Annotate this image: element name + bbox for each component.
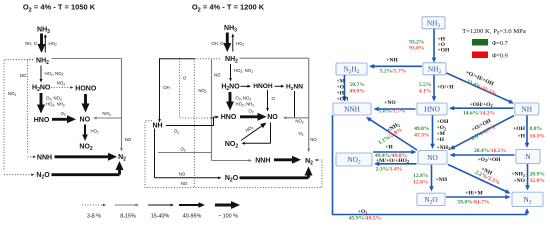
arrow H2NO->HONO dotted (left)	[51, 87, 71, 89]
species box NO (right)	[418, 151, 447, 165]
arrow NH3->NH2 thick (mid)	[226, 33, 229, 46]
svg-text:3-8 %: 3-8 %	[87, 214, 101, 220]
arrow N2O->N2 (right)	[446, 196, 507, 198]
arrow NH2->NH3 reverse thin (mid)	[232, 36, 234, 51]
wire gray NH2->N2 right (mid)	[240, 58, 309, 150]
svg-text:NO: NO	[214, 73, 221, 78]
svg-text:HNO: HNO	[424, 105, 440, 114]
svg-text:NO: NO	[427, 153, 438, 162]
svg-text:10.3%: 10.3%	[530, 134, 546, 140]
svg-text:+H: +H	[385, 145, 393, 151]
svg-text:1.8%/3.7%: 1.8%/3.7%	[379, 109, 406, 115]
wire NH down (mid)	[154, 129, 156, 178]
arrow NH2->H2NO (left)	[40, 66, 42, 80]
legend red swatch	[472, 52, 488, 59]
wire NO->NO2 (mid)	[270, 123, 272, 144]
svg-text:HNO: HNO	[34, 117, 50, 124]
arrow dotted into N2O (left)	[4, 174, 32, 176]
species box NH3 (right)	[422, 17, 445, 29]
arrow HNO->NO (right)	[432, 115, 434, 145]
arrow NO->NNH (right)	[369, 119, 417, 150]
species box NNH (right)	[333, 103, 371, 115]
arrow NH2->NH (right)	[447, 73, 511, 102]
wire H2NN down (mid)	[294, 91, 296, 117]
svg-text:28.9%: 28.9%	[530, 172, 546, 178]
arrow gray branch into NO (left)	[96, 117, 122, 119]
svg-text:45.9%/49.5%: 45.9%/49.5%	[349, 216, 382, 222]
svg-text:+OH/+O2: +OH/+O2	[469, 102, 492, 108]
legend arrow 40-95%	[179, 204, 200, 206]
svg-text:+H: +H	[517, 134, 525, 140]
svg-text:12.6%: 12.6%	[413, 180, 429, 186]
svg-text:NO: NO	[125, 137, 132, 142]
arrow dashed into N2 (mid)	[317, 159, 322, 161]
wire dotted NH2->HNO (mid)	[180, 59, 208, 118]
svg-text:+NO: +NO	[513, 178, 525, 184]
svg-text:Φ=0.7: Φ=0.7	[492, 40, 508, 47]
species box HNO (right)	[417, 103, 447, 115]
arrow NH->NO (right)	[453, 116, 514, 148]
arrow HNO->NO (mid)	[240, 115, 260, 118]
svg-text:NO: NO	[310, 137, 317, 142]
wire gray NH2 NO down (mid)	[211, 59, 213, 161]
svg-text:4.1%: 4.1%	[419, 89, 432, 95]
arrow into HNO left (mid)	[214, 116, 217, 118]
wire NH2->NH (mid)	[160, 59, 195, 121]
svg-text:2.3%/1.4%: 2.3%/1.4%	[376, 166, 403, 172]
species box N2H2 (right)	[336, 63, 367, 75]
arrow NO->NO2 (right)	[378, 163, 417, 165]
svg-text:NO: NO	[181, 181, 188, 186]
arrow HNOH->H2NN (mid)	[275, 85, 282, 87]
arrow NO2->NO diagonal (mid)	[241, 125, 264, 141]
arrow HONO->NO (left)	[84, 94, 87, 106]
svg-text:HNO: HNO	[221, 114, 237, 121]
wire N2O->N2 horizontal (left)	[52, 173, 120, 176]
arrow HNOH->NO (mid)	[267, 90, 269, 109]
svg-text:NH: NH	[522, 105, 533, 114]
wire dashed NH->N2 path (mid)	[145, 121, 322, 188]
arrow NH->N2O (mid)	[155, 177, 219, 179]
svg-text:+O/+H: +O/+H	[437, 85, 454, 91]
wire gray NH O2 row (mid)	[158, 152, 212, 154]
svg-text:~ 100 %: ~ 100 %	[218, 214, 238, 220]
wire N2O->N2 (mid)	[240, 176, 309, 179]
species box NO2 (right)	[336, 153, 372, 166]
svg-text:40-95%: 40-95%	[183, 214, 202, 220]
svg-text:+NH2: +NH2	[511, 172, 525, 178]
legend arrow 3-8%	[82, 204, 104, 206]
arrow N2O->N2 up (left)	[118, 168, 121, 175]
arrow N2H2->NNH (right)	[344, 75, 346, 98]
svg-text:OH: OH	[163, 85, 169, 90]
svg-text:NNH: NNH	[37, 154, 52, 161]
svg-text:+OH: +OH	[513, 126, 526, 132]
arrow NH2->NH3 reverse thin (left)	[44, 37, 46, 53]
legend arrow 8-15%	[115, 204, 136, 206]
arrow N->N2 (right)	[527, 164, 529, 187]
svg-text:OH, O: OH, O	[25, 41, 38, 46]
svg-text:59.8%/61.7%: 59.8%/61.7%	[457, 200, 490, 206]
svg-text:+O2/+OH: +O2/+OH	[477, 157, 501, 163]
species box N2 (right)	[512, 192, 543, 207]
svg-text:+NH: +NH	[436, 177, 448, 183]
arrow dotted into NNH (left)	[28, 156, 34, 158]
arrow H2NO->HNOH (mid)	[241, 85, 249, 87]
svg-text:+OH: +OH	[438, 48, 451, 54]
svg-text:+H/+M: +H/+M	[465, 191, 483, 197]
svg-text:OH, O: OH, O	[211, 41, 224, 46]
species box NH (right)	[515, 103, 539, 115]
svg-text:49.0%: 49.0%	[414, 126, 430, 132]
wire dotted NH2->N2O via NO2 (left)	[4, 60, 33, 171]
arrow HNO->NNH (right)	[377, 108, 415, 110]
species box N (right)	[516, 150, 540, 164]
arrow NH3->NH2 thick (left)	[40, 34, 43, 47]
svg-text:HONO: HONO	[75, 86, 97, 93]
svg-text:N: N	[525, 152, 531, 161]
wire gray NH2->N2 (left)	[52, 59, 122, 150]
arrow NH3->NH2 (right)	[433, 29, 435, 59]
svg-text:93.0%: 93.0%	[409, 46, 425, 52]
arrow NO->N2O (right)	[431, 165, 433, 188]
arrow NO->NO2 left (mid)	[244, 142, 270, 144]
arrow dotted into HNO (mid)	[207, 117, 212, 119]
wire dotted NH2 NO2 down (mid)	[193, 59, 195, 188]
svg-text:50.7%: 50.7%	[350, 82, 366, 88]
arrow NH2->N2H2 (right)	[373, 65, 422, 67]
svg-text:NO: NO	[267, 114, 278, 121]
arrow N->NO (right)	[453, 154, 514, 156]
arrow H2NO->HNO (left)	[40, 93, 43, 107]
arrow HNO->NO (left)	[52, 118, 69, 121]
svg-text:14.6%/14.2%: 14.6%/14.2%	[463, 111, 496, 117]
arrow into NO right (mid)	[286, 117, 309, 119]
arrow H2NO->HNO (mid)	[229, 92, 232, 104]
svg-text:12.8%: 12.8%	[413, 173, 429, 179]
svg-text:+NO: +NO	[384, 100, 396, 106]
arrow NNH->N2 (mid)	[274, 158, 294, 161]
svg-text:32.8%: 32.8%	[530, 178, 546, 184]
arrow NO->N2 (right)	[448, 165, 507, 192]
svg-text:8.8%: 8.8%	[530, 126, 543, 132]
species box NH2 (right)	[423, 63, 446, 75]
svg-text:+OH: +OH	[337, 97, 350, 103]
wire NH->HNO (mid)	[166, 117, 214, 126]
arrow NH->N (right)	[526, 115, 528, 144]
arrow bottom path into N2 (right)	[526, 212, 528, 215]
wire NNH->N2 bottom path (right)	[333, 115, 528, 214]
arrow gray into NNH (mid)	[212, 160, 250, 162]
wire dotted NH2 left segment (mid)	[195, 58, 221, 60]
svg-text:NO: NO	[80, 117, 91, 124]
svg-text:NH: NH	[152, 123, 162, 130]
svg-text:49.9%: 49.9%	[350, 89, 366, 95]
arrow NNH->N2 (left)	[55, 155, 111, 158]
svg-text:5.2%/5.7%: 5.2%/5.7%	[380, 68, 407, 74]
arrow NH2->HNO (right)	[433, 75, 435, 98]
arrow NH->HNO (right)	[453, 107, 514, 109]
svg-text:+NH: +NH	[386, 58, 398, 64]
svg-text:HNOH: HNOH	[253, 83, 273, 90]
arrow NO->NO2 (left)	[84, 125, 86, 137]
svg-text:15-40%: 15-40%	[151, 214, 170, 220]
legend arrow 15-40%	[148, 204, 171, 206]
svg-text:+M/+O/+HO2: +M/+O/+HO2	[376, 158, 409, 164]
svg-text:NNH: NNH	[255, 157, 270, 164]
svg-text:47.3%: 47.3%	[414, 133, 430, 139]
svg-text:20.4%/16.5%: 20.4%/16.5%	[474, 148, 507, 154]
svg-text:NNH: NNH	[344, 105, 361, 114]
svg-text:NO: NO	[20, 73, 27, 78]
legend green swatch	[472, 39, 488, 46]
svg-text:5.5%: 5.5%	[419, 82, 432, 88]
svg-text:+NH2: +NH2	[437, 145, 451, 151]
svg-text:8-15%: 8-15%	[120, 214, 136, 220]
species box N2O (right)	[417, 193, 445, 206]
svg-text:+H: +H	[437, 137, 445, 143]
arrow NH2->H2NO (mid)	[230, 64, 232, 79]
wire dotted NH2->NNH via NO (left)	[28, 60, 33, 154]
legend arrow ~100%	[215, 204, 233, 207]
svg-text:+O2: +O2	[358, 209, 368, 215]
arrow NO2->NO (right)	[373, 151, 413, 153]
svg-text:Φ=0.9: Φ=0.9	[492, 53, 508, 60]
arrow N2O->N2 up (mid)	[307, 173, 310, 178]
svg-text:NO: NO	[179, 172, 186, 177]
